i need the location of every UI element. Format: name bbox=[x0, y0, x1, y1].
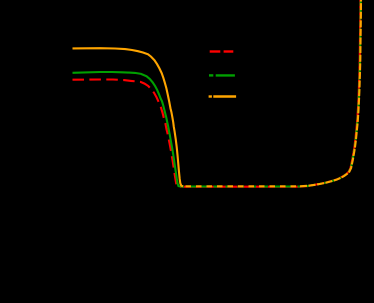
legend sample green bbox=[209, 74, 235, 76]
curve green bottom valley bbox=[181, 185, 300, 187]
legend sample red bbox=[210, 50, 234, 52]
curve red left plateau and drop bbox=[73, 80, 181, 187]
curve red right rise base bbox=[299, 0, 360, 187]
curve green right rise bbox=[300, 0, 361, 187]
curve orange right rise bbox=[300, 0, 361, 186]
curve orange bottom valley bbox=[183, 185, 300, 187]
curve red bottom valley bbox=[180, 186, 299, 188]
curve green left plateau and drop bbox=[73, 72, 181, 187]
curve orange left plateau and drop bbox=[73, 48, 184, 186]
legend sample orange bbox=[209, 95, 237, 97]
